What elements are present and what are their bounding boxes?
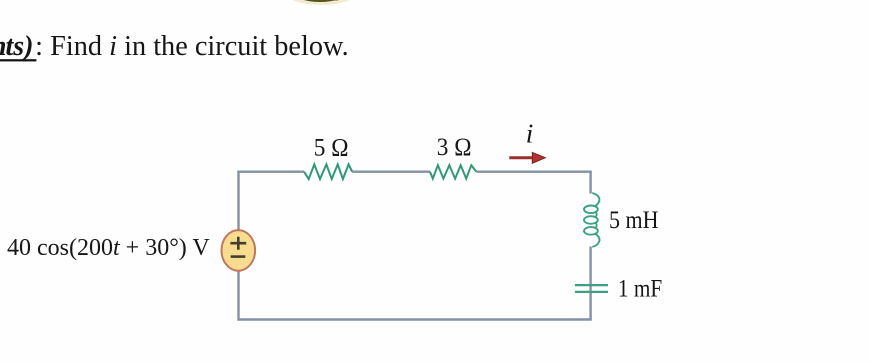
svg-text:i: i [526,119,534,149]
current arrow [509,152,545,163]
svg-text:1 mF: 1 mF [618,275,662,302]
heading text: "ts): Find i in the circuit below." [0,31,349,62]
wire: top-right horizontal + right-upper vertical [476,172,590,194]
logo remnant (cut-off seal at top) [286,0,356,5]
voltage source plus sign [230,237,246,250]
svg-text:3 Ω: 3 Ω [437,134,472,161]
wire: top-left horizontal + left vertical + bottom + right-lower vertical [239,172,591,320]
voltage source minus sign [231,255,246,258]
svg-text:: Find i in the circuit below.: : Find i in the circuit below. [35,31,349,62]
resistor 3ohm zigzag [430,165,476,178]
inductor L coil [584,193,600,247]
capacitor plates [575,285,608,292]
voltage source VS circle [222,230,256,271]
svg-text:5 Ω: 5 Ω [314,134,349,161]
svg-text:5 mH: 5 mH [609,205,659,234]
svg-text:40 cos(200t + 30°) V: 40 cos(200t + 30°) V [7,235,210,261]
resistor 5ohm zigzag [304,164,352,179]
svg-text:ts): ts) [6,31,34,62]
wire: middle horizontal between resistors [352,170,430,172]
